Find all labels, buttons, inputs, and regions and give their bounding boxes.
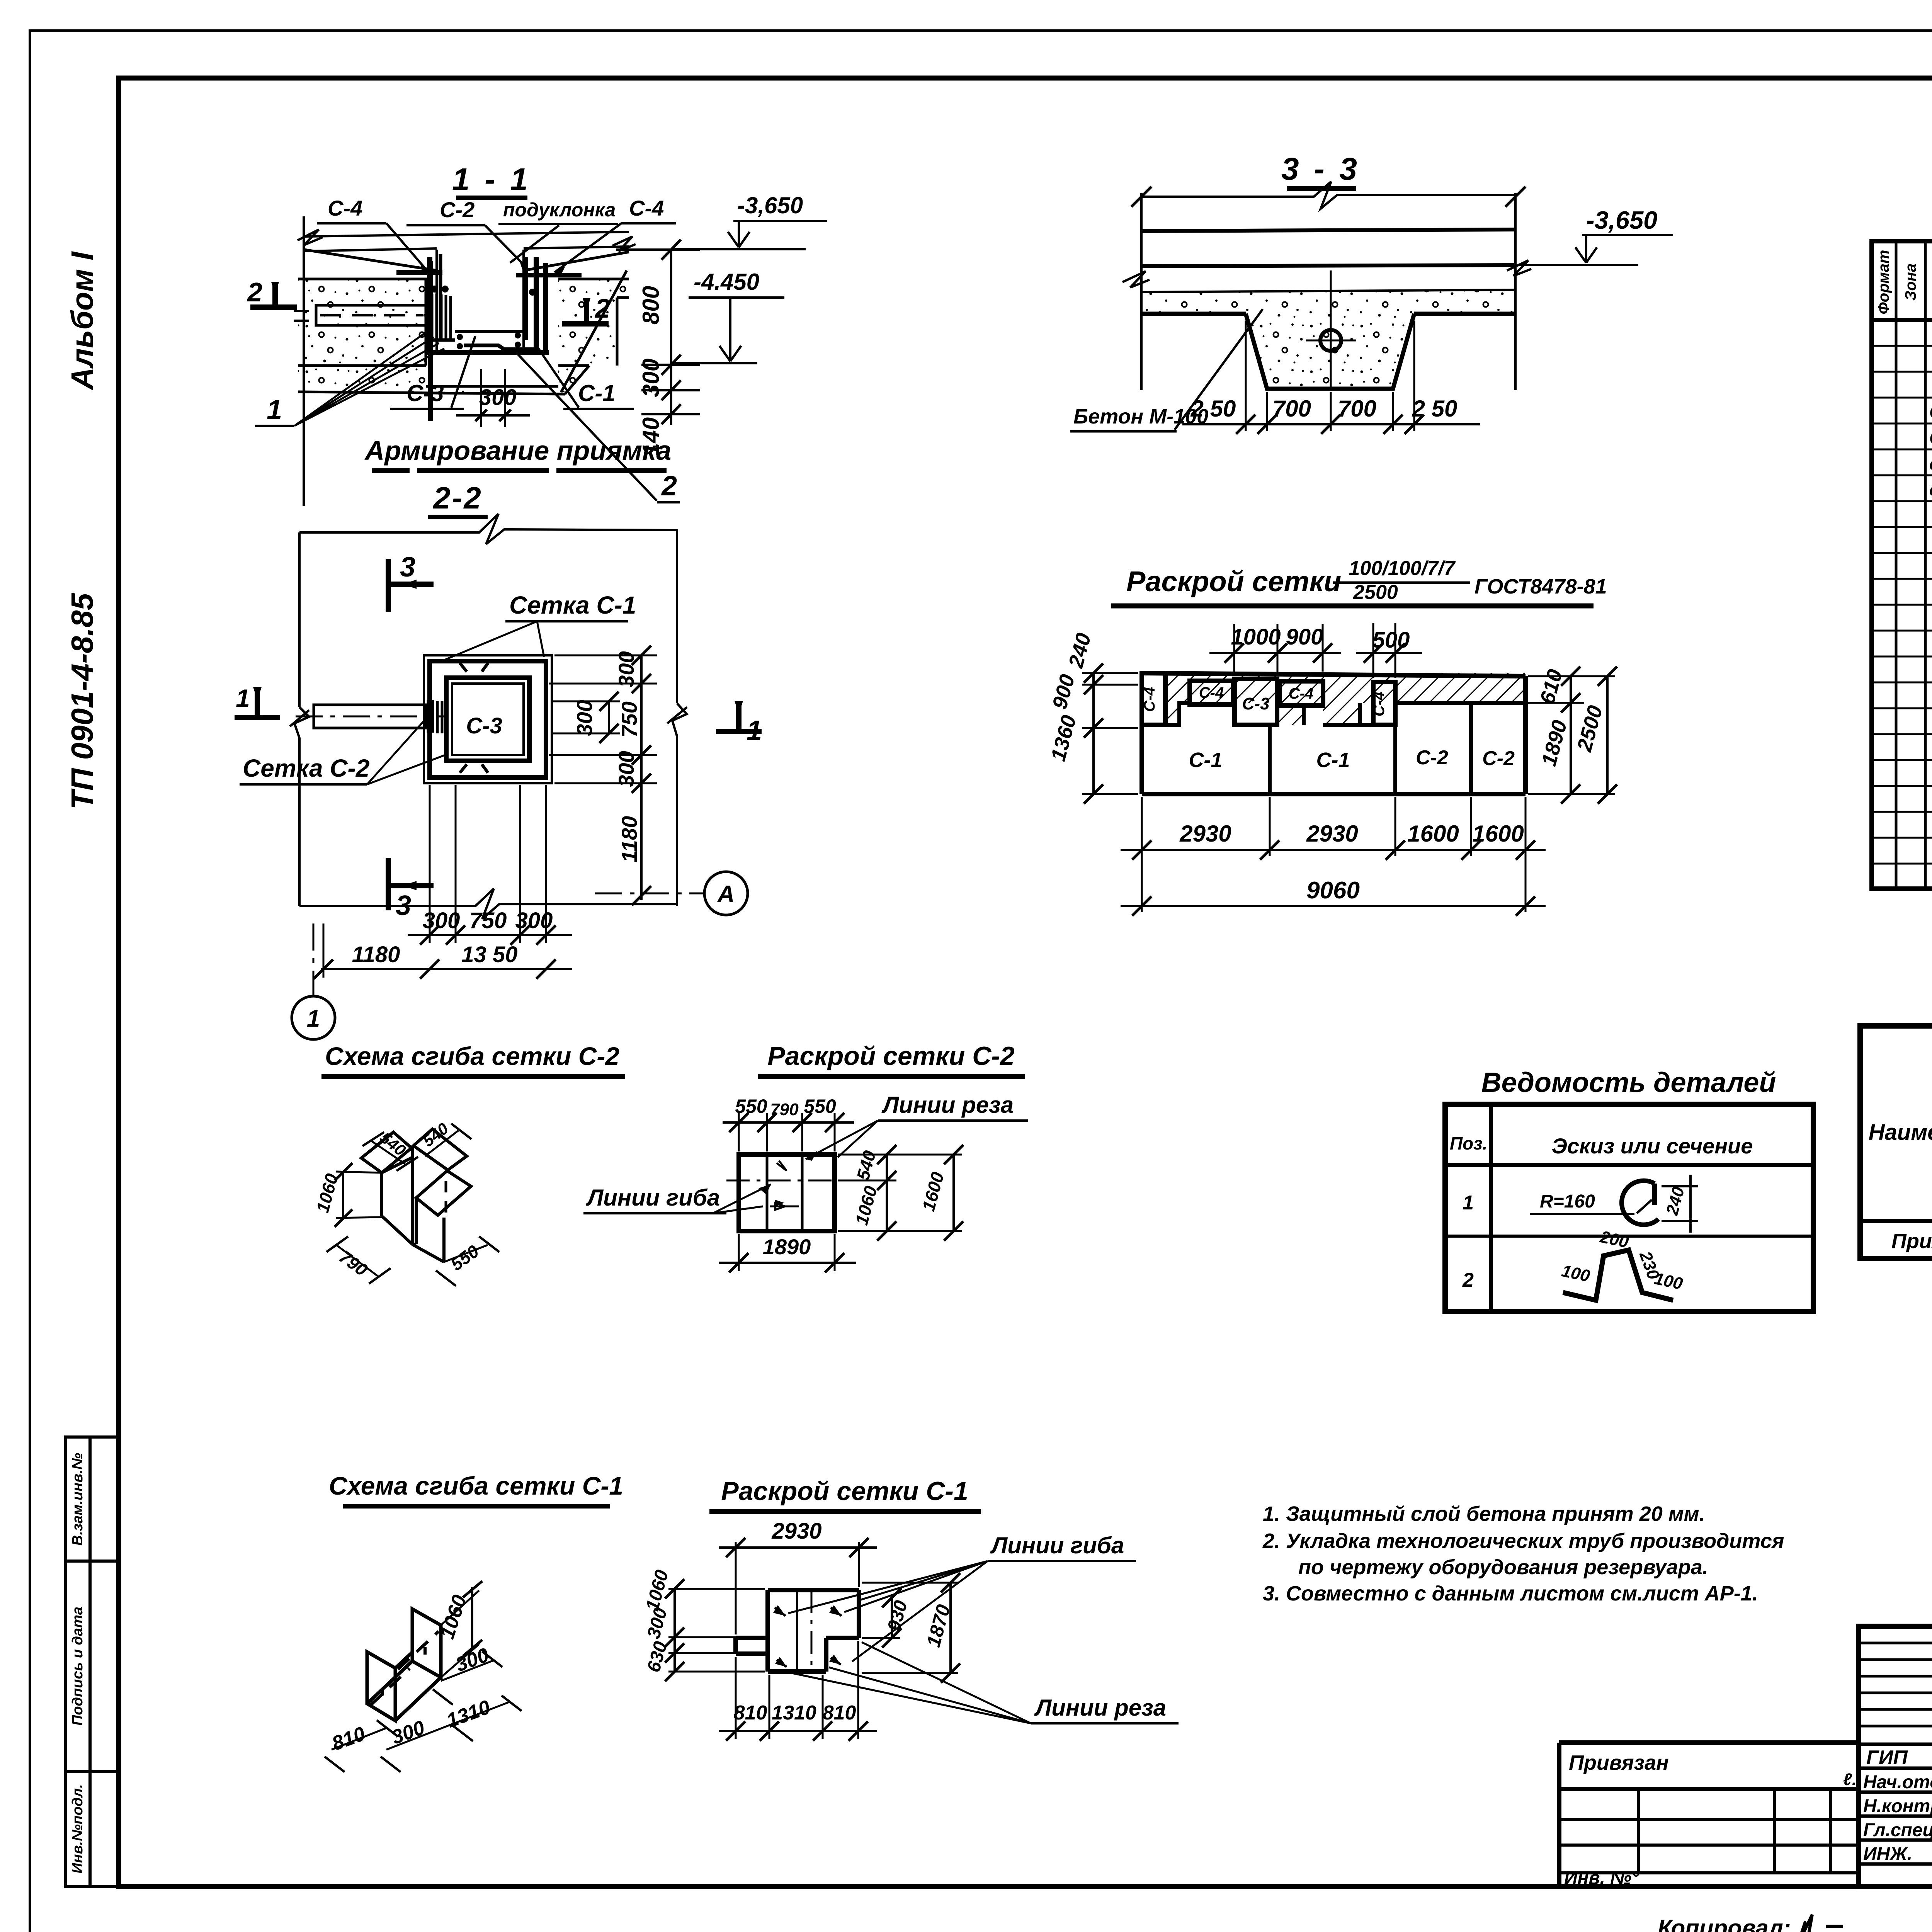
dim 1060 [342, 1172, 344, 1218]
section marker 2 left [250, 282, 297, 307]
interior cut verticals [796, 1590, 798, 1672]
svg-text:Приямок: Приямок [1891, 1230, 1932, 1253]
svg-text:Подпись и дата: Подпись и дата [70, 1607, 86, 1726]
svg-text:2: 2 [1462, 1269, 1474, 1291]
svg-text:790: 790 [770, 1100, 799, 1119]
svg-text:1180: 1180 [352, 942, 400, 967]
svg-text:810: 810 [734, 1702, 767, 1724]
section marker 2 right [562, 298, 609, 324]
box С-3 [1235, 679, 1277, 725]
corner marks [460, 663, 488, 773]
svg-text:550: 550 [735, 1095, 767, 1117]
right dims 930 1870 [829, 1597, 900, 1598]
section marker 1 left [235, 689, 280, 718]
svg-text:2500: 2500 [1353, 581, 1398, 604]
svg-text:по чертежу оборудования резе: по чертежу оборудования резервуара. [1298, 1556, 1708, 1579]
svg-text:ТП 0901-4-8.85: ТП 0901-4-8.85 [65, 592, 99, 810]
svg-text:810: 810 [823, 1702, 856, 1724]
right dims 540 1060 1600 [838, 1154, 962, 1156]
dim 810 [332, 1728, 386, 1750]
svg-text:С-3: С-3 [1242, 694, 1270, 713]
svg-text:С-3: С-3 [466, 713, 502, 738]
svg-text:Наименование: Наименование [1869, 1120, 1932, 1145]
right wall [412, 1609, 441, 1677]
left dims 240 900 1360 [1092, 673, 1095, 794]
svg-text:Инв.№подл.: Инв.№подл. [70, 1784, 86, 1873]
chain 300 1310 [386, 1702, 510, 1750]
svg-text:1890: 1890 [763, 1235, 811, 1259]
svg-text:1 - 1: 1 - 1 [452, 162, 531, 197]
svg-text:Раскрой сетки: Раскрой сетки [1126, 565, 1341, 597]
C-2 cut layout rectangle [739, 1155, 835, 1231]
svg-text:С-2: С-2 [1416, 747, 1448, 769]
bottom dim chain row2 [323, 923, 325, 978]
svg-text:ℓ.: ℓ. [1843, 1770, 1857, 1789]
left concrete block [298, 279, 426, 366]
specification table frame [1872, 241, 1932, 889]
dim 550 [444, 1245, 488, 1262]
svg-text:2-2: 2-2 [432, 481, 483, 515]
svg-text:Поз.: Поз. [1450, 1133, 1487, 1153]
svg-text:700: 700 [1338, 396, 1376, 422]
svg-text:Сетка С-2: Сетка С-2 [243, 754, 369, 782]
pit trapezoid outline [1141, 314, 1515, 389]
svg-text:Альбом I: Альбом I [65, 251, 99, 391]
svg-text:Схема сгиба сетки С-2: Схема сгиба сетки С-2 [325, 1042, 619, 1070]
svg-text:R=160: R=160 [1540, 1191, 1595, 1212]
svg-text:800: 800 [638, 286, 664, 325]
svg-text:300: 300 [479, 385, 517, 410]
svg-text:1180: 1180 [617, 816, 641, 862]
pipe circle [1320, 330, 1341, 351]
dim 300 upper [441, 1660, 495, 1681]
steel table frame [1860, 1026, 1932, 1259]
svg-text:С-4: С-4 [629, 196, 664, 220]
svg-text:1. Защитный слой бетона пр: 1. Защитный слой бетона принят 20 мм. [1263, 1502, 1705, 1526]
section marker 3 top [388, 559, 434, 612]
svg-text:С-4: С-4 [1141, 687, 1158, 712]
hatched waste band [1165, 673, 1526, 703]
svg-text:Линии реза: Линии реза [881, 1092, 1014, 1118]
svg-text:1600: 1600 [1472, 821, 1524, 847]
dim 1060 [441, 1590, 479, 1677]
pipe sleeve plan [314, 705, 425, 728]
C-4 tee bar left [396, 261, 442, 421]
svg-text:Копировал:: Копировал: [1658, 1915, 1791, 1932]
svg-text:Зона: Зона [1902, 264, 1919, 301]
svg-text:С-4: С-4 [1289, 685, 1313, 702]
svg-text:Армирование приямка: Армирование приямка [364, 435, 672, 466]
box С-4 no3 [1279, 681, 1323, 706]
title block signature table frame [1859, 1626, 1932, 1886]
right concrete block [558, 279, 629, 366]
mesh tick marks cluster [432, 294, 451, 340]
detail 1 hook sketch [1622, 1181, 1658, 1225]
concrete band with pit trapezoid [1141, 290, 1515, 389]
right break mark [612, 236, 636, 251]
signature rows [1859, 1743, 1932, 1746]
bottom dimension chain [1245, 321, 1247, 431]
right extension line with break [667, 530, 687, 906]
svg-text:-3,650: -3,650 [1586, 206, 1657, 234]
svg-text:300: 300 [638, 359, 664, 397]
svg-text:13 50: 13 50 [461, 942, 517, 967]
svg-text:1: 1 [307, 1005, 320, 1032]
embedded sleeve left [316, 305, 426, 325]
svg-text:Нач.отд: Нач.отд [1863, 1772, 1932, 1793]
box С-4 no2 [1190, 681, 1233, 704]
svg-text:300: 300 [614, 751, 638, 787]
svg-text:300: 300 [423, 908, 460, 933]
svg-text:С-4: С-4 [328, 196, 362, 220]
right dim chain [640, 655, 643, 900]
svg-text:Линии гиба: Линии гиба [990, 1532, 1124, 1558]
excavation slope diagonal [561, 270, 627, 392]
top break line [299, 514, 678, 544]
bottom dim chain row1 [429, 785, 431, 943]
rebar section dots [431, 286, 438, 293]
svg-text:-3,650: -3,650 [737, 192, 803, 218]
outline [736, 1590, 859, 1672]
svg-text:3: 3 [396, 890, 411, 921]
svg-text:1: 1 [267, 395, 282, 425]
axis circle A [704, 872, 748, 915]
svg-text:2930: 2930 [1306, 821, 1358, 847]
cell dividers [1268, 726, 1272, 794]
svg-text:2930: 2930 [1179, 821, 1231, 847]
svg-text:с-4: с-4 [1929, 480, 1932, 500]
svg-text:ГОСТ8478-81: ГОСТ8478-81 [1475, 575, 1607, 598]
top line with break [1141, 182, 1515, 209]
mesh C-2 left wall (heavy U) [430, 257, 549, 352]
svg-text:550: 550 [804, 1095, 836, 1117]
spec body row lines [1872, 346, 1932, 864]
left break mark [298, 230, 323, 245]
svg-text:900: 900 [1286, 624, 1323, 650]
svg-text:100/100/7/7: 100/100/7/7 [1349, 557, 1456, 580]
svg-text:Гл.спец: Гл.спец [1863, 1820, 1932, 1840]
dim 540 right [425, 1131, 458, 1156]
svg-text:В.зам.инв.№: В.зам.инв.№ [70, 1453, 86, 1546]
svg-text:Эскиз или сечение: Эскиз или сечение [1552, 1134, 1753, 1158]
svg-text:С-2: С-2 [1482, 747, 1515, 770]
svg-text:1: 1 [236, 684, 250, 713]
svg-text:Формат: Формат [1875, 250, 1892, 315]
svg-text:А: А [717, 881, 735, 908]
svg-text:Схема сгиба сетки С-1: Схема сгиба сетки С-1 [329, 1471, 623, 1500]
svg-text:С-4: С-4 [1371, 692, 1388, 716]
left break mark [1122, 271, 1150, 287]
svg-text:Инв. №°: Инв. №° [1564, 1868, 1639, 1888]
svg-text:2: 2 [247, 277, 262, 307]
svg-text:Привязан: Привязан [1569, 1751, 1669, 1774]
mesh right wall heavy lines [526, 257, 536, 350]
bottom concrete band under pit [298, 366, 589, 392]
pit plan squares [424, 655, 552, 783]
svg-text:ГИП: ГИП [1866, 1747, 1908, 1769]
mesh ticks on pipe [428, 700, 447, 734]
svg-text:Линии гиба: Линии гиба [586, 1185, 720, 1211]
box С-4 vertical no4 [1373, 682, 1395, 725]
svg-text:-4.450: -4.450 [694, 269, 759, 295]
svg-text:300: 300 [515, 908, 553, 933]
svg-text:3 - 3: 3 - 3 [1281, 151, 1360, 187]
svg-text:ИНЖ.: ИНЖ. [1863, 1844, 1912, 1864]
svg-text:подуклонка: подуклонка [503, 199, 616, 221]
svg-text:1: 1 [1463, 1192, 1474, 1214]
left wall [367, 1652, 395, 1721]
figure outline [1142, 673, 1526, 794]
svg-text:Раскрой сетки С-1: Раскрой сетки С-1 [721, 1476, 968, 1506]
svg-text:9060: 9060 [1306, 877, 1360, 904]
right dims 610 1890 2500 [1528, 675, 1615, 677]
svg-text:С-1: С-1 [1929, 402, 1932, 422]
bottom connections [367, 1652, 441, 1721]
svg-text:2. Укладка технологических: 2. Укладка технологических труб производ… [1262, 1529, 1784, 1553]
svg-text:2 50: 2 50 [1412, 396, 1458, 422]
pit cavity outline [437, 250, 524, 350]
svg-text:3: 3 [400, 552, 415, 583]
C-2 isometric bend figure [361, 1132, 412, 1173]
spec header row [1872, 318, 1932, 322]
svg-text:1: 1 [747, 715, 762, 746]
bend arrows inside [770, 1203, 799, 1210]
top dims 1000 900 500 [1233, 624, 1235, 675]
left extension line with break [290, 532, 309, 906]
svg-text:750: 750 [469, 908, 507, 933]
svg-text:С-1: С-1 [1316, 748, 1350, 772]
top dim 2930 [735, 1542, 737, 1634]
extension verticals [1140, 193, 1143, 390]
svg-text:С-2: С-2 [1929, 428, 1932, 448]
C-4 tee bar right [516, 263, 582, 350]
section marker 1 right [716, 703, 762, 731]
inner 300 dim [608, 701, 610, 733]
hidden fold dashes [398, 1631, 439, 1669]
bend marks inside [775, 1607, 786, 1616]
svg-text:3. Совместно с данным листом: 3. Совместно с данным листом см.лист АР-… [1263, 1582, 1758, 1605]
top dims 550 790 550 [738, 1113, 740, 1151]
svg-text:2930: 2930 [771, 1519, 821, 1544]
stepped top boundary of C-1 cells [1142, 703, 1526, 725]
svg-text:700: 700 [1272, 396, 1311, 422]
details table frame [1445, 1104, 1813, 1311]
svg-text:1600: 1600 [1407, 821, 1459, 847]
svg-text:1000: 1000 [1231, 624, 1281, 650]
slab heavy lines [1141, 230, 1515, 231]
left dims 1060 300 630 [673, 1589, 676, 1672]
right dimension line [670, 250, 672, 425]
bar detail 2 in pit bottom [464, 345, 539, 349]
tank floor slab lines [305, 232, 629, 236]
section marker 3 bottom [388, 858, 434, 910]
bottom break line [299, 889, 677, 919]
svg-text:Ведомость деталей: Ведомость деталей [1481, 1067, 1776, 1098]
svg-text:Сетка С-1: Сетка С-1 [509, 591, 636, 619]
bottom dims 2930 2930 1600 1600 [1141, 797, 1143, 912]
pit floor mesh line [455, 330, 524, 333]
svg-text:С-2: С-2 [440, 197, 474, 222]
dim 540 left [371, 1141, 405, 1164]
box С-4 vertical left [1142, 673, 1165, 725]
upper thin rows [1859, 1642, 1932, 1645]
svg-text:С-1: С-1 [578, 380, 616, 406]
svg-text:300: 300 [572, 700, 597, 736]
svg-text:Раскрой сетки С-2: Раскрой сетки С-2 [767, 1041, 1015, 1071]
svg-text:500: 500 [1372, 628, 1410, 653]
overall dim 9060 [1121, 905, 1546, 907]
bottom dim 1890 [738, 1234, 740, 1271]
svg-text:300: 300 [614, 651, 638, 687]
dim 790 [336, 1245, 379, 1277]
detail 2 bent bar sketch [1563, 1250, 1673, 1300]
spec column dividers [1895, 241, 1898, 889]
svg-text:1310: 1310 [772, 1702, 816, 1724]
privyazan table [1559, 1743, 1859, 1886]
svg-text:2: 2 [594, 293, 610, 323]
svg-text:750: 750 [617, 701, 641, 737]
left margin stamp table [66, 1437, 119, 1886]
svg-text:С-1: С-1 [1189, 748, 1222, 772]
slope topping lines [304, 250, 437, 270]
svg-text:Н.контр: Н.контр [1863, 1796, 1932, 1816]
left extension line [303, 216, 305, 506]
svg-text:С-4: С-4 [1199, 684, 1224, 701]
bottom dims 810 1310 810 [735, 1657, 737, 1739]
svg-text:С-3: С-3 [406, 380, 444, 406]
svg-text:с-3: с-3 [1929, 454, 1932, 474]
svg-text:Линии реза: Линии реза [1034, 1695, 1166, 1721]
svg-text:2: 2 [661, 471, 677, 502]
svg-text:2 50: 2 50 [1190, 396, 1236, 422]
axis circle 1 [292, 996, 335, 1039]
